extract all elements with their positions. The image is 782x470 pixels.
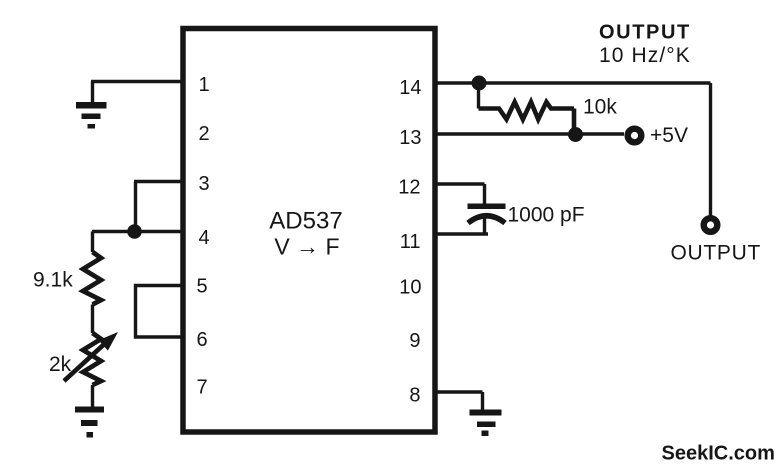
- wire pin 3 down to node at pin 4: [134, 182, 183, 232]
- svg-text:AD537: AD537: [269, 208, 342, 235]
- wire R1 to R2: [91, 305, 94, 334]
- svg-text:13: 13: [399, 127, 421, 149]
- svg-text:9: 9: [409, 330, 420, 352]
- svg-text:+5V: +5V: [650, 124, 688, 147]
- wire node down to resistor R3: [477, 83, 480, 109]
- junction node on pin 13 wire: [568, 127, 583, 142]
- terminal +5V: [628, 129, 642, 143]
- svg-text:8: 8: [409, 385, 420, 407]
- wire node to resistor R1: [91, 232, 94, 253]
- potentiometer R2 2k zigzag: [83, 333, 101, 385]
- wire pin 1 to ground: [91, 82, 183, 103]
- wire pin 12 to capacitor C1: [435, 184, 485, 204]
- terminal OUTPUT: [704, 218, 718, 232]
- resistor R1 9.1k: [83, 252, 101, 305]
- svg-text:1000 pF: 1000 pF: [508, 204, 585, 227]
- svg-text:10k: 10k: [583, 96, 617, 119]
- potentiometer R2 arrow: [64, 343, 106, 382]
- wire capacitor C1 to pin 11: [435, 217, 488, 234]
- svg-text:10: 10: [399, 277, 421, 299]
- wire pin 4: [92, 230, 183, 233]
- IC U1 AD537 body: [183, 29, 435, 433]
- svg-text:1: 1: [198, 74, 209, 96]
- ground G2 (below 2k): [75, 407, 104, 438]
- svg-text:4: 4: [198, 227, 209, 249]
- svg-text:11: 11: [400, 231, 421, 253]
- svg-text:12: 12: [398, 177, 420, 199]
- wire pin 14 to output terminal: [435, 83, 711, 216]
- svg-text:6: 6: [196, 329, 207, 351]
- svg-text:10 Hz/°K: 10 Hz/°K: [599, 44, 691, 67]
- junction node on pin 14 wire: [472, 76, 487, 91]
- svg-text:9.1k: 9.1k: [33, 269, 73, 292]
- svg-text:2: 2: [198, 123, 209, 145]
- wire R2 to ground: [91, 385, 94, 407]
- svg-text:OUTPUT: OUTPUT: [599, 22, 691, 44]
- wire loop pins 5 to 6: [136, 286, 184, 338]
- svg-text:7: 7: [196, 377, 207, 399]
- svg-text:V → F: V → F: [274, 234, 339, 260]
- ground G3 (pin 8): [470, 410, 502, 437]
- wire pin 13 to +5V: [435, 132, 624, 135]
- svg-text:SeekIC.com: SeekIC.com: [662, 443, 775, 465]
- svg-text:OUTPUT: OUTPUT: [671, 242, 762, 265]
- capacitor C1 bottom plate (curved): [468, 216, 505, 223]
- ground G1 (pin 1): [76, 102, 107, 129]
- capacitor C1 top plate: [468, 204, 506, 210]
- resistor R3 10k: [479, 102, 575, 134]
- svg-text:5: 5: [196, 276, 207, 298]
- wire pin 8 to ground: [435, 392, 483, 410]
- svg-text:3: 3: [198, 173, 209, 195]
- junction node at pin 4: [127, 224, 142, 239]
- svg-text:2k: 2k: [49, 353, 72, 376]
- svg-text:14: 14: [399, 77, 421, 99]
